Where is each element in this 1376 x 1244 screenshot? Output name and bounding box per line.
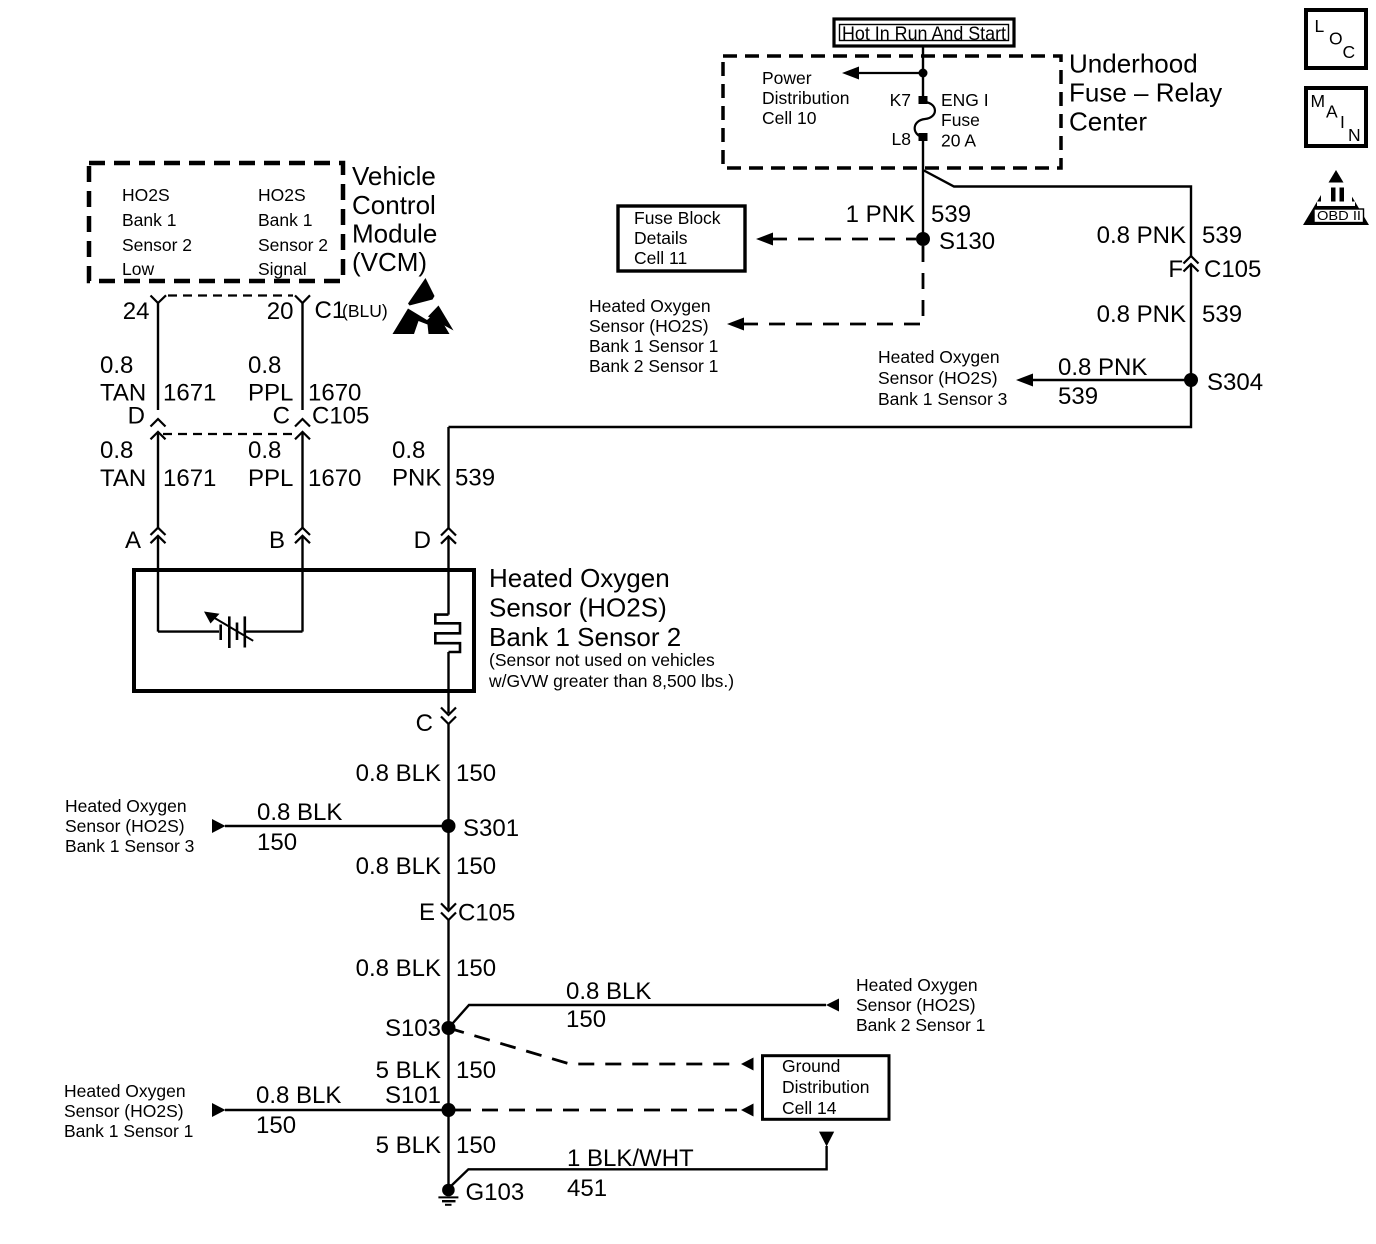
svg-text:Bank 1 Sensor 3: Bank 1 Sensor 3 — [65, 836, 194, 856]
wire S301 to E C105 — [447, 826, 449, 909]
svg-text:150: 150 — [566, 1006, 606, 1033]
svg-text:Heated Oxygen: Heated Oxygen — [64, 1081, 186, 1101]
svg-text:L: L — [1315, 16, 1325, 36]
svg-text:N: N — [1348, 125, 1361, 145]
splice S101 — [442, 1103, 456, 1117]
svg-text:G103: G103 — [466, 1179, 525, 1206]
svg-text:S301: S301 — [463, 815, 519, 842]
svg-text:24: 24 — [123, 298, 150, 325]
wire heater to box bottom and pin C — [447, 652, 449, 713]
svg-text:0.8: 0.8 — [100, 352, 133, 379]
svg-text:0.8 BLK: 0.8 BLK — [566, 978, 651, 1005]
svg-text:Low: Low — [122, 259, 154, 279]
ground G103 — [438, 1184, 458, 1205]
label 0.8 BLK 150 (E to S103) — [356, 955, 496, 982]
svg-text:(VCM): (VCM) — [352, 247, 427, 277]
svg-text:Fuse – Relay: Fuse – Relay — [1069, 78, 1222, 108]
fuse F: ENG I Fuse 20 A, terminals K7/L8 — [915, 96, 935, 141]
ESD sensitivity symbol — [393, 278, 454, 334]
connector E C105 chevrons (down) — [441, 903, 456, 920]
svg-text:PPL: PPL — [248, 465, 293, 492]
svg-text:C: C — [1343, 42, 1356, 62]
label 0.8 BLK 150 on right branch — [566, 978, 651, 1033]
svg-text:Heated Oxygen: Heated Oxygen — [589, 296, 711, 316]
svg-text:1670: 1670 — [308, 465, 361, 492]
svg-text:Heated Oxygen: Heated Oxygen — [878, 347, 1000, 367]
svg-text:A: A — [125, 527, 141, 554]
label 0.8 BLK 150 (S301 to E) — [356, 853, 496, 880]
svg-text:1 PNK: 1 PNK — [846, 201, 915, 228]
dashed wire S130 to Fuse Block Details — [756, 233, 916, 246]
Fuse Block Details box — [618, 206, 745, 271]
svg-text:150: 150 — [256, 1112, 296, 1139]
svg-text:0.8: 0.8 — [248, 352, 281, 379]
svg-text:D: D — [128, 403, 145, 430]
svg-text:Control: Control — [352, 190, 436, 220]
label C1 (BLU) — [315, 297, 388, 324]
label 5 BLK 150 (S103 to S101) — [376, 1057, 496, 1084]
svg-text:(BLU): (BLU) — [342, 301, 388, 321]
svg-text:1 BLK/WHT: 1 BLK/WHT — [567, 1145, 694, 1172]
wire 1670 PPL from VCM pin 20 to C105 — [301, 303, 303, 410]
wire PNK down to D — [447, 427, 449, 528]
label VCM pin function right: HO2S Bank 1 Sensor 2 Signal — [258, 185, 328, 279]
sensor pin A chevrons — [151, 528, 166, 544]
svg-text:Bank 2 Sensor 1: Bank 2 Sensor 1 — [589, 356, 718, 376]
sensor pin C chevrons (down) — [441, 708, 456, 725]
sensor pin B chevrons — [295, 528, 310, 544]
connector C105 terminal C chevrons — [295, 419, 310, 439]
svg-text:0.8: 0.8 — [248, 437, 281, 464]
wire C down to S301 — [447, 724, 449, 826]
dashed wire S130 down to HO2S B1S1/B2S1 — [727, 246, 923, 331]
sensor pin D chevrons — [441, 528, 456, 544]
label Heated Oxygen Sensor (HO2S) Bank 1 Sensor 1 / Bank 2 Sensor 1 — [589, 296, 718, 376]
label 0.8 PNK 539 lower — [392, 437, 495, 492]
label Power Distribution Cell 10 — [762, 68, 850, 128]
sensor element (variable cell) between A and B — [158, 612, 303, 649]
connector C105 dashed line — [163, 433, 296, 435]
svg-text:539: 539 — [455, 465, 495, 492]
svg-text:Heated Oxygen: Heated Oxygen — [856, 975, 978, 995]
Ground Distribution Cell 14 box — [763, 1056, 890, 1120]
svg-text:O: O — [1329, 29, 1343, 49]
svg-text:A: A — [1326, 102, 1338, 122]
svg-text:D: D — [414, 527, 431, 554]
svg-text:w/GVW greater than 8,500 lbs.): w/GVW greater than 8,500 lbs.) — [488, 671, 734, 691]
svg-text:Heated Oxygen: Heated Oxygen — [65, 796, 187, 816]
Vehicle Control Module dashed box — [89, 163, 343, 281]
arrow to Power Distribution — [842, 67, 923, 80]
wire S103 branch right to HO2S B2S1 — [449, 999, 840, 1029]
svg-text:539: 539 — [1058, 383, 1098, 410]
svg-text:0.8: 0.8 — [100, 437, 133, 464]
heater element on D-C leg — [435, 615, 460, 652]
svg-text:Sensor 2: Sensor 2 — [122, 235, 192, 255]
svg-text:(Sensor not used on vehicles: (Sensor not used on vehicles — [489, 650, 715, 670]
svg-text:I: I — [1340, 112, 1345, 132]
svg-text:S101: S101 — [385, 1082, 441, 1109]
svg-text:C: C — [273, 403, 290, 430]
label Heated Oxygen Sensor (HO2S) Bank 2 Sensor 1 — [856, 975, 985, 1035]
svg-text:Fuse Block: Fuse Block — [634, 208, 721, 228]
label 0.8 PPL 1670 upper — [248, 352, 361, 407]
svg-text:Bank 2 Sensor 1: Bank 2 Sensor 1 — [856, 1015, 985, 1035]
svg-text:Fuse: Fuse — [941, 110, 980, 130]
svg-text:Bank 1 Sensor 3: Bank 1 Sensor 3 — [878, 389, 1007, 409]
svg-text:OBD II: OBD II — [1317, 208, 1361, 223]
wire S304 down and across to D drop — [449, 380, 1192, 427]
svg-text:C105: C105 — [1204, 256, 1261, 283]
svg-text:5 BLK: 5 BLK — [376, 1057, 441, 1084]
svg-text:Heated Oxygen: Heated Oxygen — [489, 563, 670, 593]
wire TAN below C105 to A — [157, 432, 159, 528]
svg-text:Module: Module — [352, 219, 437, 249]
splice S304 — [1184, 373, 1198, 387]
connector F C105 — [1168, 256, 1261, 283]
svg-text:Sensor (HO2S): Sensor (HO2S) — [65, 816, 185, 836]
splice S130 — [916, 232, 930, 246]
label Heated Oxygen Sensor (HO2S) Bank 1 Sensor 2 — [488, 563, 734, 691]
svg-text:HO2S: HO2S — [258, 185, 306, 205]
svg-text:Signal: Signal — [258, 259, 307, 279]
svg-text:539: 539 — [1202, 301, 1242, 328]
svg-text:Bank 1 Sensor 1: Bank 1 Sensor 1 — [589, 336, 718, 356]
svg-text:0.8 BLK: 0.8 BLK — [356, 760, 441, 787]
svg-text:Details: Details — [634, 228, 688, 248]
svg-text:Underhood: Underhood — [1069, 49, 1198, 79]
svg-text:M: M — [1311, 91, 1326, 111]
svg-text:0.8: 0.8 — [392, 437, 425, 464]
label 0.8 BLK 150 (C to S301) — [356, 760, 496, 787]
svg-text:Cell 11: Cell 11 — [634, 248, 687, 268]
svg-text:S130: S130 — [939, 228, 995, 255]
wire S101 down to G103 — [447, 1110, 449, 1188]
connector C1 terminal Y at pin 24 — [151, 295, 167, 303]
svg-text:Bank 1: Bank 1 — [258, 210, 312, 230]
svg-text:5 BLK: 5 BLK — [376, 1132, 441, 1159]
svg-text:PNK: PNK — [392, 465, 441, 492]
svg-text:Center: Center — [1069, 107, 1147, 137]
wire 1671 TAN from VCM pin 24 to C105 — [157, 303, 159, 410]
svg-text:1671: 1671 — [163, 380, 216, 407]
label Underhood Fuse-Relay Center — [1069, 49, 1222, 137]
wire from fuse L8 down to S130 — [922, 141, 924, 239]
svg-text:Vehicle: Vehicle — [352, 161, 436, 191]
wire S304 branch to HO2S B1S3 with arrow — [1016, 374, 1191, 387]
svg-text:20: 20 — [267, 298, 294, 325]
Hot In Run And Start box — [834, 19, 1014, 46]
fuse value label — [941, 90, 989, 151]
wire S101 branch left to HO2S B1S1 — [212, 1103, 449, 1117]
label 0.8 PPL 1670 lower — [248, 437, 361, 492]
label Heated Oxygen Sensor (HO2S) Bank 1 Sensor 3 — [878, 347, 1007, 409]
connector C105 terminal D chevrons — [151, 419, 166, 439]
label 0.8 PNK 539 upper right — [1097, 222, 1242, 249]
svg-text:1671: 1671 — [163, 465, 216, 492]
svg-text:539: 539 — [1202, 222, 1242, 249]
OBD II symbol — [1303, 170, 1369, 225]
svg-text:0.8 PNK: 0.8 PNK — [1097, 222, 1186, 249]
svg-text:Sensor (HO2S): Sensor (HO2S) — [489, 593, 667, 623]
wire from Hot box into fuse center — [922, 46, 924, 96]
svg-text:0.8 BLK: 0.8 BLK — [356, 853, 441, 880]
svg-text:451: 451 — [567, 1175, 607, 1202]
wire S301 branch left to HO2S B1S3 — [212, 819, 449, 833]
svg-text:Ground: Ground — [782, 1056, 840, 1076]
label 0.8 BLK 150 on branch — [257, 799, 342, 856]
svg-text:C: C — [416, 710, 433, 737]
svg-text:Cell 14: Cell 14 — [782, 1098, 837, 1118]
svg-text:Sensor (HO2S): Sensor (HO2S) — [589, 316, 709, 336]
wire 1 BLK/WHT 451 from G103 up to Ground Distribution — [450, 1132, 834, 1187]
label 0.8 TAN 1671 lower — [100, 437, 216, 492]
label 5 BLK 150 (S101 to G103) — [376, 1132, 496, 1159]
svg-text:0.8 PNK: 0.8 PNK — [1058, 354, 1147, 381]
label VCM pin function left: HO2S Bank 1 Sensor 2 Low — [122, 185, 192, 279]
dashed wire S101 to Ground Distribution — [455, 1104, 754, 1117]
label 1 BLK/WHT 451 — [567, 1145, 694, 1202]
svg-text:0.8 BLK: 0.8 BLK — [257, 799, 342, 826]
svg-text:150: 150 — [456, 1057, 496, 1084]
dashed wire S103 to Ground Distribution — [449, 1028, 754, 1071]
svg-text:TAN: TAN — [100, 465, 146, 492]
connector C1 terminal Y at pin 20 — [295, 295, 310, 303]
svg-text:150: 150 — [456, 853, 496, 880]
wire F C105 to S304 — [1190, 264, 1192, 380]
svg-text:Bank 1 Sensor 1: Bank 1 Sensor 1 — [64, 1121, 193, 1141]
svg-text:20 A: 20 A — [941, 131, 976, 151]
svg-text:Cell 10: Cell 10 — [762, 108, 817, 128]
svg-text:0.8 PNK: 0.8 PNK — [1097, 301, 1186, 328]
svg-text:F: F — [1168, 256, 1183, 283]
svg-text:B: B — [269, 527, 285, 554]
label 0.8 TAN 1671 upper — [100, 352, 216, 407]
label Heated Oxygen Sensor (HO2S) Bank 1 Sensor 1 — [64, 1081, 193, 1141]
svg-text:150: 150 — [456, 955, 496, 982]
svg-text:Sensor (HO2S): Sensor (HO2S) — [64, 1101, 184, 1121]
splice S103 — [442, 1021, 456, 1035]
svg-text:HO2S: HO2S — [122, 185, 170, 205]
wire branch to right riser (0.8 PNK 539) — [923, 170, 1191, 256]
svg-text:S103: S103 — [385, 1015, 441, 1042]
svg-text:Sensor (HO2S): Sensor (HO2S) — [856, 995, 976, 1015]
splice S301 — [442, 819, 456, 833]
label 0.8 PNK 539 lower right — [1097, 301, 1242, 328]
label 0.8 PNK 539 on branch — [1058, 354, 1147, 410]
wire E to S103 — [447, 920, 449, 1028]
svg-text:L8: L8 — [892, 129, 911, 149]
svg-text:Power: Power — [762, 68, 812, 88]
svg-text:C105: C105 — [458, 900, 515, 927]
svg-text:ENG I: ENG I — [941, 90, 989, 110]
svg-text:E: E — [419, 899, 435, 926]
svg-text:0.8 BLK: 0.8 BLK — [356, 955, 441, 982]
wire PPL below C105 to B — [301, 432, 303, 528]
label 1 PNK 539 — [846, 201, 971, 228]
svg-text:539: 539 — [931, 201, 971, 228]
svg-text:Hot In Run And Start: Hot In Run And Start — [842, 23, 1007, 45]
svg-text:C105: C105 — [312, 403, 369, 430]
label Vehicle Control Module (VCM) — [352, 161, 437, 277]
wires into HO2S box — [157, 536, 159, 632]
LOC reference box — [1306, 10, 1366, 68]
svg-text:Distribution: Distribution — [762, 88, 850, 108]
Underhood Fuse-Relay Center dashed box — [723, 56, 1061, 168]
wire S103 to S101 — [447, 1028, 449, 1110]
svg-text:Sensor 2: Sensor 2 — [258, 235, 328, 255]
svg-text:C1: C1 — [315, 297, 346, 324]
connector C1 dashed line — [168, 294, 293, 296]
svg-text:150: 150 — [456, 1132, 496, 1159]
label Heated Oxygen Sensor (HO2S) Bank 1 Sensor 3 left — [65, 796, 194, 856]
svg-text:Bank 1 Sensor 2: Bank 1 Sensor 2 — [489, 622, 681, 652]
svg-text:S304: S304 — [1207, 369, 1263, 396]
svg-text:Distribution: Distribution — [782, 1077, 870, 1097]
svg-text:150: 150 — [456, 760, 496, 787]
svg-text:Bank 1: Bank 1 — [122, 210, 176, 230]
svg-text:150: 150 — [257, 829, 297, 856]
node junction at power distribution tap — [919, 69, 928, 78]
label 0.8 BLK 150 on left branch — [256, 1082, 341, 1139]
Heated Oxygen Sensor HO2S Bank 1 Sensor 2 box — [134, 570, 474, 691]
svg-text:0.8 BLK: 0.8 BLK — [256, 1082, 341, 1109]
svg-text:K7: K7 — [890, 90, 911, 110]
svg-text:Sensor (HO2S): Sensor (HO2S) — [878, 368, 998, 388]
MAIN reference box — [1306, 88, 1366, 146]
